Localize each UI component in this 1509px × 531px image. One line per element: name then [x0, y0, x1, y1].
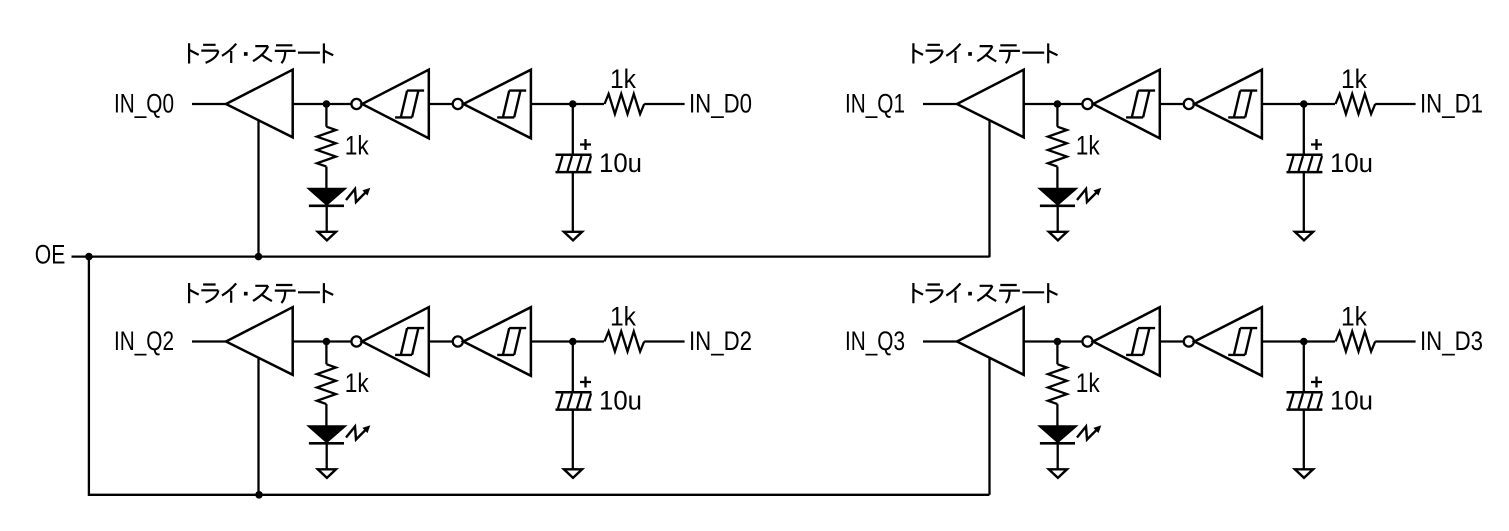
svg-text:IN_D3: IN_D3: [1420, 326, 1483, 356]
svg-text:OE: OE: [35, 240, 66, 270]
svg-text:IN_D2: IN_D2: [689, 326, 752, 356]
svg-text:IN_Q0: IN_Q0: [114, 89, 174, 119]
svg-text:IN_Q1: IN_Q1: [845, 89, 905, 119]
svg-text:IN_Q2: IN_Q2: [114, 326, 174, 356]
svg-text:IN_D0: IN_D0: [689, 89, 752, 119]
svg-text:IN_D1: IN_D1: [1420, 89, 1483, 119]
svg-text:IN_Q3: IN_Q3: [845, 326, 905, 356]
